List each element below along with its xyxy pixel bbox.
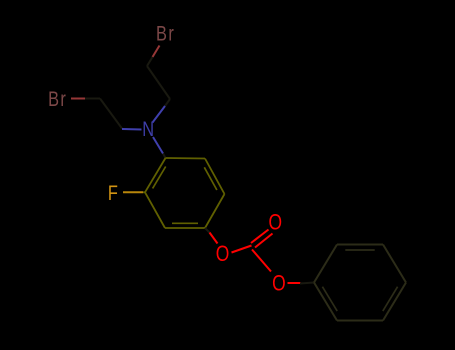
benzene ring 2: r1-r2 bond (314, 245, 337, 283)
wire chain C-C bond a-b (100, 99, 122, 129)
wire N-C1 ring bond (blue) (153, 137, 163, 154)
benzene ring 2: r3-r4 bond (383, 245, 406, 283)
benzene ring 1: C5-C6 bond (double) (205, 159, 225, 195)
svg-text:N: N (142, 117, 154, 140)
wire O3-phenyl bond (oxygen half, red) (288, 282, 301, 284)
wire C-N bond b-N (blue) (122, 128, 142, 131)
wire O3-phenyl bond (carbon half) (300, 283, 314, 284)
benzene ring 2: r6-r1 bond (double) (314, 283, 337, 321)
benzene ring 2: r5-r6 bond (337, 320, 383, 322)
svg-text:Br: Br (48, 87, 67, 110)
svg-text:O: O (272, 272, 286, 296)
wire Br1-C bond (carbon half) (147, 57, 153, 66)
wire C4-O1 bond (oxygen half, red) (210, 233, 218, 244)
svg-text:Br: Br (156, 22, 175, 45)
wire O1-carbonyl C bond (red) (232, 246, 252, 253)
wire C-N bond d-N (carbon tip) (165, 99, 170, 106)
benzene ring 1: C4-C5 bond (205, 194, 225, 228)
wire Br2-C bond (bromine half) (71, 98, 85, 100)
wire F-C2 bond (carbon half) (143, 191, 146, 193)
benzene ring 1: C6-C1 bond (166, 157, 206, 160)
benzene ring 2: r4-r5 bond (double) (383, 283, 406, 321)
wire C-N bond d-N (nitrogen half) (153, 106, 166, 123)
wire F-C2 bond (fluorine half, gold) (123, 191, 143, 193)
benzene ring 1: C3-C4 bond (double) (165, 227, 205, 229)
benzene ring 1: C2-C3 bond (145, 192, 165, 228)
svg-text:F: F (108, 181, 118, 204)
wire Br2-C bond (carbon half) (85, 98, 100, 100)
wire carbonyl C-O3 bond (red) (252, 250, 271, 272)
svg-text:O: O (216, 242, 230, 266)
benzene ring 1: C1-C2 bond (double, aromatic) (145, 158, 166, 192)
wire N-C1 ring bond (carbon tip) (163, 154, 166, 159)
benzene ring 2: r2-r3 bond (double) (337, 244, 383, 246)
carbonyl C=O2 double bond (red, two lines) (251, 230, 269, 244)
wire Br1-C bond (bromine half) (153, 46, 160, 58)
wire C4-O1 bond (carbon half) (205, 228, 210, 233)
wire chain C-C bond c-d (147, 66, 170, 99)
svg-text:O: O (269, 211, 283, 235)
